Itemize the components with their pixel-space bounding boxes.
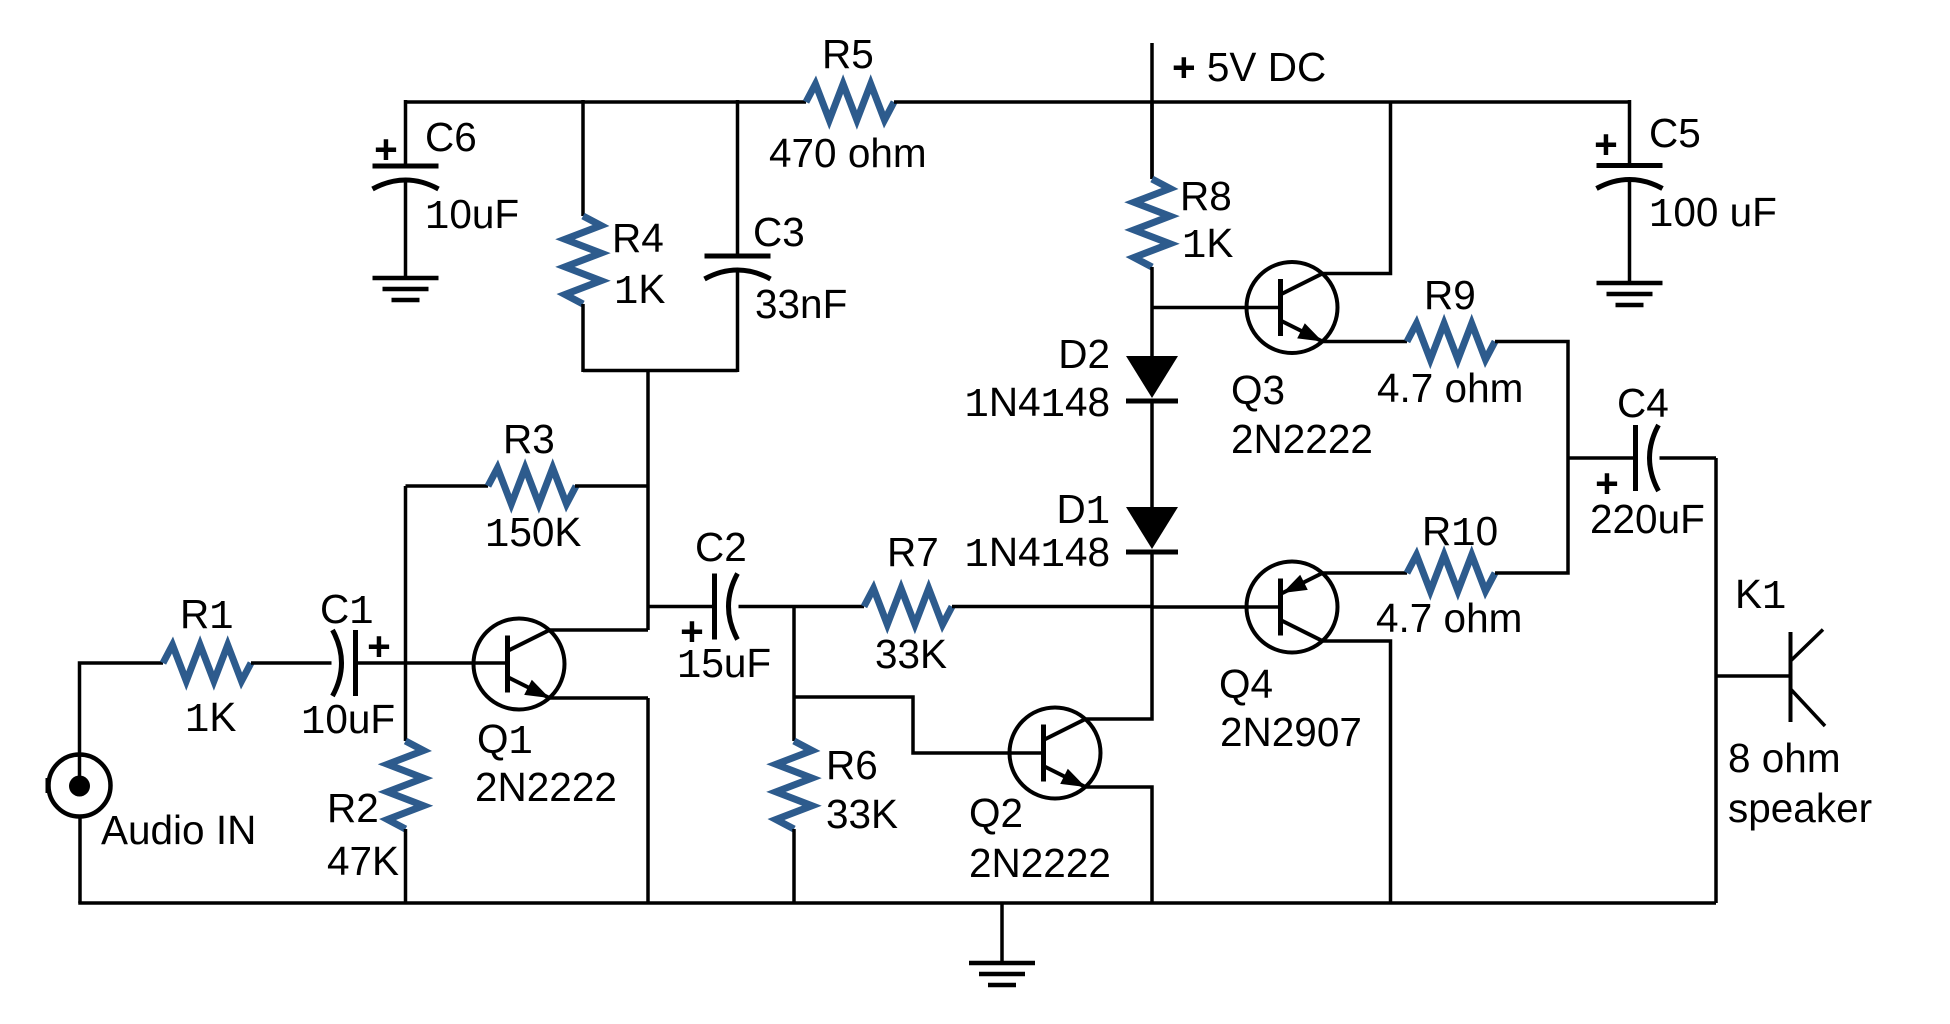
label C6 plus	[374, 126, 398, 172]
svg-text:+: +	[374, 126, 398, 172]
resistor R2	[388, 741, 424, 829]
resistor R6	[776, 741, 812, 829]
wire Q1 collector	[550, 628, 649, 632]
label R10 value 4.7 ohm	[1376, 595, 1522, 641]
svg-text:Q4: Q4	[1219, 661, 1273, 707]
wire jack to R1	[80, 663, 164, 787]
svg-text:+ 5V DC: + 5V DC	[1172, 44, 1326, 90]
label R5	[822, 31, 874, 77]
label C6	[425, 114, 477, 160]
label R9	[1424, 272, 1476, 318]
connector Audio IN jack	[48, 755, 111, 817]
svg-text:+: +	[1594, 121, 1618, 167]
svg-text:Audio IN: Audio IN	[101, 807, 256, 853]
svg-text:220uF: 220uF	[1590, 496, 1705, 542]
label C2 plus	[680, 608, 704, 654]
svg-text:2N2222: 2N2222	[475, 764, 617, 810]
label R3 value 150K	[485, 509, 581, 559]
label Q4	[1219, 661, 1273, 707]
label C3 value 33nF	[755, 281, 847, 327]
transistor Q2	[1010, 708, 1101, 799]
wire Q2 collector	[1086, 607, 1153, 720]
capacitor C1	[333, 630, 356, 696]
wire R4-C3 connector	[583, 369, 738, 373]
wire Q4 collector	[1323, 641, 1391, 903]
label D1	[1056, 486, 1110, 536]
svg-text:1K: 1K	[185, 694, 236, 744]
svg-text:4.7 ohm: 4.7 ohm	[1376, 595, 1522, 641]
label Q1 type 2N2222	[475, 764, 617, 810]
wire R6 top	[792, 607, 796, 742]
label R3	[503, 416, 555, 462]
capacitor C5	[1597, 166, 1663, 189]
wire C3 bottom	[736, 271, 740, 372]
svg-text:Q1: Q1	[477, 716, 533, 766]
wire R3 left riser	[404, 486, 408, 663]
svg-text:R9: R9	[1424, 272, 1476, 318]
label R6	[826, 742, 878, 788]
wire R4 bottom	[581, 304, 585, 372]
wire +5V to R8	[1150, 102, 1154, 179]
svg-text:R3: R3	[503, 416, 555, 462]
label Q3	[1231, 367, 1285, 413]
wire Q2 emitter	[1086, 787, 1153, 903]
svg-text:2N2222: 2N2222	[969, 840, 1111, 886]
transistor Q3	[1247, 262, 1338, 353]
svg-text:10uF: 10uF	[425, 191, 519, 241]
label R10	[1422, 508, 1498, 558]
wire R4 top	[581, 100, 585, 216]
wire R8 to Q3 base node	[1150, 267, 1154, 356]
node +5V DC label	[1172, 44, 1326, 90]
capacitor C6	[373, 166, 439, 189]
wire Q1 emitter	[550, 696, 649, 700]
svg-text:4.7 ohm: 4.7 ohm	[1377, 365, 1523, 411]
svg-text:150K: 150K	[485, 509, 581, 559]
label Q4 type 2N2907	[1220, 709, 1362, 755]
svg-text:1K: 1K	[1182, 220, 1233, 270]
transistor Q4	[1247, 562, 1338, 653]
svg-text:470 ohm: 470 ohm	[769, 130, 927, 176]
wire C5 bottom	[1628, 181, 1632, 284]
svg-text:100 uF: 100 uF	[1649, 189, 1777, 239]
label C1 value 10uF	[301, 696, 395, 746]
wire C1 to Q1 base	[356, 661, 508, 665]
label K1 value 8 ohm	[1728, 735, 1841, 781]
capacitor C2	[715, 574, 738, 640]
label R1	[180, 591, 234, 641]
label C5 value 100 uF	[1649, 189, 1777, 239]
wire Q1 emitter drop	[646, 698, 650, 903]
svg-text:C5: C5	[1649, 110, 1701, 156]
label Audio IN	[101, 807, 256, 853]
resistor R5	[806, 84, 894, 120]
svg-text:C2: C2	[695, 524, 747, 570]
label C5 plus	[1594, 121, 1618, 167]
svg-text:R4: R4	[612, 215, 664, 261]
wire top rail left (C6 to R5)	[406, 100, 807, 104]
speaker K1	[1791, 630, 1826, 727]
wire R6 bottom	[792, 829, 796, 903]
wire jack bottom riser	[78, 816, 82, 903]
label C2	[695, 524, 747, 570]
label D2 type 1N4148	[965, 379, 1110, 429]
wire speaker tap	[1716, 674, 1790, 678]
svg-text:R7: R7	[887, 529, 939, 575]
wire bottom rail	[78, 901, 1716, 905]
wire C2 tee	[648, 605, 715, 609]
label R4	[612, 215, 664, 261]
wire C3 top	[736, 100, 740, 256]
wire ground stem	[1000, 903, 1004, 963]
wire R7 to bias node	[952, 605, 1152, 609]
svg-text:R8: R8	[1180, 173, 1232, 219]
label D2	[1058, 331, 1110, 377]
wire R10 to C4 node	[1495, 458, 1568, 573]
label Q2 type 2N2222	[969, 840, 1111, 886]
svg-text:C3: C3	[753, 209, 805, 255]
svg-text:2N2222: 2N2222	[1231, 416, 1373, 462]
wire top rail right (R5 to C5)	[894, 100, 1630, 104]
svg-text:R2: R2	[327, 785, 379, 831]
diode D2	[1126, 356, 1178, 401]
svg-text:1K: 1K	[614, 266, 665, 316]
wire C2 to R7	[739, 605, 865, 609]
wire Q3 base	[1152, 306, 1281, 310]
label C1 plus	[367, 623, 391, 669]
wire C6 top	[404, 100, 408, 166]
label R9 value 4.7 ohm	[1377, 365, 1523, 411]
svg-text:Q2: Q2	[969, 790, 1023, 836]
resistor R10	[1407, 555, 1495, 591]
wire Q2 base jog	[794, 697, 1044, 753]
wire D2 to D1	[1150, 401, 1154, 507]
svg-text:47K: 47K	[327, 838, 399, 884]
wire C6 bottom	[404, 181, 408, 278]
ground C6	[373, 278, 439, 300]
ground main	[969, 963, 1035, 985]
wire R3 right lead	[575, 484, 648, 488]
label Q2	[969, 790, 1023, 836]
label R2 value 47K	[327, 838, 399, 884]
svg-text:33K: 33K	[826, 791, 898, 837]
label Q3 type 2N2222	[1231, 416, 1373, 462]
label R7	[887, 529, 939, 575]
label C3	[753, 209, 805, 255]
label C4	[1617, 380, 1669, 426]
capacitor C3	[705, 256, 771, 279]
svg-text:R10: R10	[1422, 508, 1498, 558]
label C1	[320, 586, 374, 636]
resistor R9	[1407, 324, 1495, 360]
label R5 value 470 ohm	[769, 130, 927, 176]
label R8 value 1K	[1182, 220, 1233, 270]
label C6 value 10uF	[425, 191, 519, 241]
svg-text:R5: R5	[822, 31, 874, 77]
resistor R4	[565, 216, 601, 304]
label R2	[327, 785, 379, 831]
svg-text:C1: C1	[320, 586, 374, 636]
svg-text:33nF: 33nF	[755, 281, 847, 327]
wire Q3 emitter	[1323, 340, 1408, 344]
wire R2 bottom	[404, 829, 408, 903]
label C5	[1649, 110, 1701, 156]
capacitor C4	[1636, 425, 1659, 491]
label C4 value 220uF	[1590, 496, 1705, 542]
wire speaker rail	[1714, 458, 1718, 903]
label K1 speaker	[1728, 785, 1872, 831]
svg-text:33K: 33K	[875, 631, 947, 677]
svg-text:speaker: speaker	[1728, 785, 1872, 831]
label C2 value 15uF	[677, 640, 771, 690]
svg-text:R1: R1	[180, 591, 234, 641]
wire C4 right lead	[1660, 456, 1717, 460]
wire Q4 emitter	[1323, 571, 1408, 575]
wire +5V stub	[1150, 43, 1154, 179]
svg-text:D2: D2	[1058, 331, 1110, 377]
label Q1	[477, 716, 533, 766]
resistor R3	[488, 468, 576, 504]
label K1	[1735, 571, 1786, 621]
wire R3 left lead	[406, 484, 489, 488]
wire D1 to output node	[1150, 552, 1154, 607]
label R4 value 1K	[614, 266, 665, 316]
wire C4 left lead	[1568, 456, 1636, 460]
svg-text:1N4148: 1N4148	[965, 379, 1110, 429]
wire R2 top	[404, 663, 408, 741]
diode D1	[1126, 507, 1178, 552]
label R6 value 33K	[826, 791, 898, 837]
wire R9 to C4 node	[1495, 342, 1568, 459]
svg-text:R6: R6	[826, 742, 878, 788]
resistor R7	[864, 589, 952, 625]
svg-text:Q3: Q3	[1231, 367, 1285, 413]
label D1 type 1N4148	[965, 529, 1110, 579]
ground C5	[1597, 283, 1663, 305]
label R8	[1180, 173, 1232, 219]
svg-text:K1: K1	[1735, 571, 1786, 621]
wire C5 top	[1628, 100, 1632, 166]
label C4 plus	[1595, 460, 1619, 506]
wire R1 to C1	[251, 661, 332, 665]
wire Q1 collector riser	[646, 371, 650, 631]
svg-text:C6: C6	[425, 114, 477, 160]
label R7 value 33K	[875, 631, 947, 677]
resistor R1	[163, 645, 251, 681]
transistor Q1	[474, 619, 565, 710]
svg-text:15uF: 15uF	[677, 640, 771, 690]
wire Q3 collector	[1323, 102, 1391, 274]
label R1 value 1K	[185, 694, 236, 744]
svg-text:C4: C4	[1617, 380, 1669, 426]
resistor R8	[1134, 179, 1170, 267]
wire Q4 base	[1152, 605, 1281, 609]
svg-text:2N2907: 2N2907	[1220, 709, 1362, 755]
svg-text:1N4148: 1N4148	[965, 529, 1110, 579]
svg-text:10uF: 10uF	[301, 696, 395, 746]
svg-text:8 ohm: 8 ohm	[1728, 735, 1841, 781]
